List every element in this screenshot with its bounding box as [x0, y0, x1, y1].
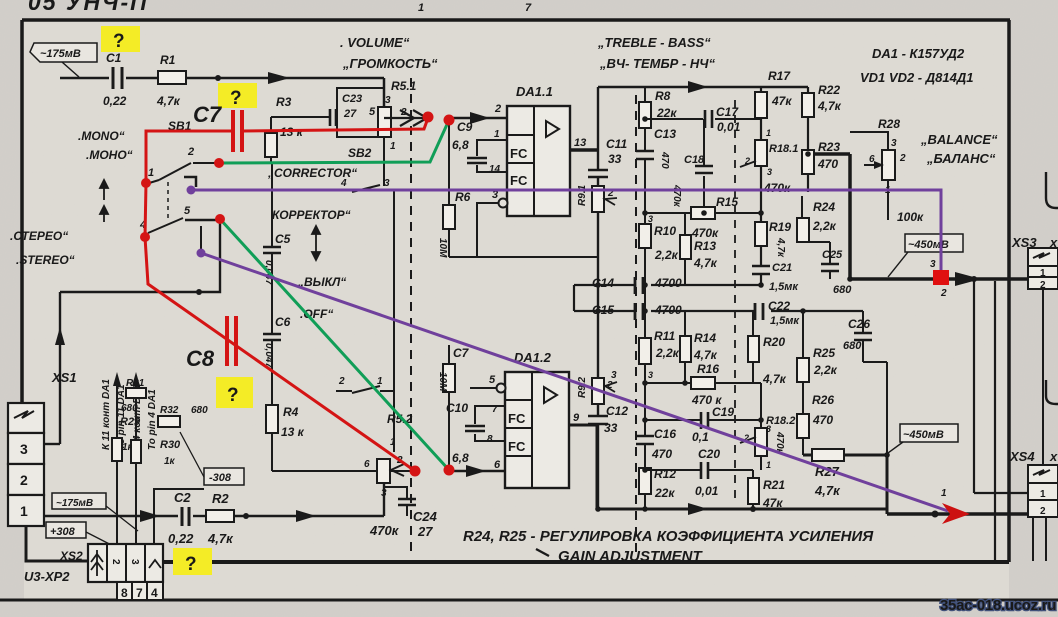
svg-text:1: 1	[1040, 489, 1046, 500]
wire: tone top rail y87	[598, 86, 808, 89]
svg-text:R23: R23	[818, 140, 840, 154]
node: tone net junction dots	[595, 116, 890, 512]
resistor R15	[691, 207, 715, 219]
bracket mark near SB1	[184, 177, 196, 187]
switch SB2 upper contact	[330, 185, 397, 192]
wire: right channel output rail y514	[887, 512, 1030, 516]
svg-text:R18.1: R18.1	[769, 143, 798, 155]
svg-text:22к: 22к	[654, 486, 675, 500]
svg-text:XS4: XS4	[1009, 449, 1035, 464]
capacitor C21	[752, 266, 770, 274]
svg-text:2: 2	[187, 146, 194, 158]
svg-text:R11: R11	[654, 329, 675, 343]
wire: R16 row y383	[645, 382, 691, 384]
resistor R23	[802, 150, 814, 174]
svg-text:2,2к: 2,2к	[813, 363, 838, 377]
svg-text:3: 3	[385, 95, 391, 106]
svg-text:3: 3	[129, 559, 140, 565]
wire: R22 column x808	[807, 87, 809, 192]
resistor R8	[639, 102, 651, 128]
svg-text:1: 1	[377, 376, 383, 387]
label box +308	[46, 522, 86, 538]
svg-text:R4: R4	[283, 405, 299, 419]
svg-text:R22: R22	[818, 83, 840, 97]
wire: XS4 tails to bus	[1032, 517, 1034, 561]
red arrowhead at XS4 feed	[942, 503, 970, 524]
svg-text:470к: 470к	[763, 181, 791, 195]
svg-text:R20: R20	[763, 335, 785, 349]
svg-text:C7: C7	[453, 346, 470, 360]
svg-text:C19: C19	[712, 405, 734, 419]
capacitor C15	[635, 303, 643, 320]
svg-text:КОРРЕКТОР“: КОРРЕКТОР“	[272, 208, 351, 222]
svg-text:0,1: 0,1	[692, 430, 709, 444]
label box ~175мВ	[30, 43, 97, 77]
wire: XS3 to XS4 link	[1042, 289, 1044, 465]
svg-text:8: 8	[487, 434, 493, 445]
svg-text:4: 4	[340, 178, 347, 189]
svg-text:1: 1	[941, 488, 947, 499]
svg-text:C6: C6	[275, 315, 291, 329]
wire: R5.1 bottom to SB2	[383, 137, 385, 186]
svg-text:3: 3	[766, 424, 771, 434]
svg-text:100к: 100к	[897, 210, 924, 224]
svg-text:„BALANCE“: „BALANCE“	[920, 132, 998, 147]
svg-text:?: ?	[185, 554, 197, 575]
svg-text:2: 2	[899, 153, 906, 164]
wire: C19 row y420	[645, 419, 700, 421]
wire: output to XS4 pin1	[974, 279, 1030, 493]
switch SB1	[146, 163, 220, 250]
svg-text:4,7к: 4,7к	[817, 99, 842, 113]
svg-text:3: 3	[611, 370, 617, 381]
svg-text:„ВЫКЛ“: „ВЫКЛ“	[297, 275, 346, 289]
highlight box ?2	[218, 83, 257, 108]
bottom bus wire	[163, 560, 1009, 564]
frame left border lower segment	[26, 526, 88, 561]
frame top border	[22, 18, 1010, 22]
svg-text:27: 27	[343, 108, 357, 120]
svg-text:R10: R10	[654, 224, 676, 238]
svg-text:VD1 VD2 - Д814Д1: VD1 VD2 - Д814Д1	[860, 70, 973, 85]
svg-text:„БАЛАНС“: „БАЛАНС“	[926, 151, 996, 166]
switch SB2 lower contact	[336, 386, 394, 393]
svg-text:C2: C2	[174, 490, 191, 505]
connector XS2 lower pins row	[117, 582, 163, 600]
capacitor C24	[384, 487, 407, 516]
svg-text:27: 27	[417, 524, 433, 539]
svg-text:R17: R17	[768, 69, 791, 83]
svg-text:3: 3	[384, 178, 390, 189]
resistor R20	[748, 336, 759, 362]
svg-text:~175мВ: ~175мВ	[56, 498, 93, 509]
svg-text:2: 2	[940, 288, 947, 299]
potentiometer R5.1	[378, 107, 391, 137]
svg-text:680: 680	[843, 340, 862, 352]
wire: C15 rail y311	[574, 310, 863, 312]
dashed separator line x636	[635, 95, 637, 556]
wire: tone vertical x761	[760, 87, 762, 285]
svg-text:C7: C7	[193, 102, 223, 127]
wire: DA1.1 pin2 input	[449, 117, 507, 120]
potentiometer R9.2	[592, 378, 604, 404]
svg-text:~450мВ: ~450мВ	[903, 429, 944, 441]
svg-text:470: 470	[659, 151, 670, 169]
purple wire: corrector bus to XS3	[191, 190, 941, 272]
svg-text:2: 2	[338, 376, 345, 387]
svg-text:1: 1	[1040, 268, 1046, 279]
resistor R17	[755, 92, 767, 118]
svg-text:R8: R8	[655, 89, 671, 103]
label box ~450мВ lower	[900, 424, 958, 442]
svg-text:.STEREO“: .STEREO“	[16, 253, 75, 267]
resistor R32	[158, 416, 180, 427]
dashed separator line x735	[734, 100, 736, 505]
svg-text:R24, R25 - РЕГУЛИРОВКА КОЭФФИ: R24, R25 - РЕГУЛИРОВКА КОЭФФИЦИЕНТА УСИЛ…	[463, 528, 874, 545]
svg-text:680: 680	[121, 403, 138, 414]
svg-text:R28: R28	[878, 117, 900, 131]
svg-text:R13: R13	[694, 239, 716, 253]
potentiometer R18.2	[755, 428, 767, 456]
svg-text:R5.1: R5.1	[391, 79, 417, 93]
capacitor C14	[635, 277, 643, 294]
svg-text:680: 680	[833, 284, 852, 296]
svg-text:?: ?	[227, 385, 239, 406]
wire: left channel output rail y279	[850, 277, 1030, 281]
capacitor C26	[863, 311, 887, 455]
svg-text:C16: C16	[654, 427, 676, 441]
op-amp DA1.1	[507, 84, 570, 216]
svg-text:To pin 4 DA1: To pin 4 DA1	[147, 389, 158, 450]
svg-text:1к: 1к	[164, 456, 176, 467]
svg-text:4,7к: 4,7к	[693, 348, 718, 362]
red wire: SB1 to R5.2 diagonal	[145, 237, 415, 471]
svg-text:„ГРОМКОСТЬ“: „ГРОМКОСТЬ“	[342, 56, 438, 71]
svg-text:R25: R25	[813, 346, 835, 360]
svg-text:22к: 22к	[656, 106, 677, 120]
resistor R1	[158, 71, 186, 84]
svg-text:4,7к: 4,7к	[762, 372, 787, 386]
svg-text:FC: FC	[510, 146, 528, 161]
corrector capacitor loop DA1.1	[477, 140, 507, 172]
wire: input rail y78	[60, 78, 384, 107]
wire: supply feed x136	[135, 384, 137, 545]
svg-text:4,7к: 4,7к	[156, 94, 181, 108]
svg-text:C23: C23	[342, 93, 362, 105]
connector bracket right lower	[1046, 380, 1058, 404]
node: rail junction	[750, 506, 756, 512]
svg-text:6: 6	[869, 154, 875, 165]
resistor R3	[270, 117, 272, 163]
svg-text:470к: 470к	[691, 226, 719, 240]
svg-text:C14: C14	[592, 276, 614, 290]
op-amp DA1.2	[505, 350, 569, 488]
svg-text:10М: 10М	[437, 238, 448, 258]
svg-text:R1: R1	[160, 53, 176, 67]
wire: R5.2 bottom to rail	[383, 483, 385, 516]
resistor R19	[755, 222, 767, 246]
wire: lower vertical x645	[644, 311, 646, 509]
capacitor C20	[701, 462, 708, 479]
svg-text:2: 2	[110, 559, 121, 565]
purple wire: long diagonal to XS4	[201, 253, 948, 511]
svg-text:0,01: 0,01	[717, 120, 741, 134]
svg-text:470: 470	[817, 157, 838, 171]
svg-text:4: 4	[151, 586, 158, 600]
svg-text:C12: C12	[606, 404, 628, 418]
wire: XS2 pin4 to -308 node	[154, 489, 204, 544]
svg-text:5: 5	[184, 205, 191, 217]
arrow on input rail	[268, 72, 290, 84]
capacitor C5	[263, 247, 281, 253]
svg-text:R24: R24	[813, 200, 835, 214]
wire: C17 row y119	[645, 118, 703, 120]
capacitor C6	[263, 334, 281, 340]
svg-text:?: ?	[230, 88, 242, 109]
capacitor C16	[636, 436, 654, 444]
capacitor C1	[113, 67, 122, 89]
wire: corrector chain vertical x272	[272, 163, 378, 471]
svg-text:9: 9	[573, 412, 580, 424]
svg-text:4,7к: 4,7к	[693, 256, 718, 270]
wire: R5.2 wiper to DA1.2	[390, 470, 416, 472]
mode arrows	[100, 180, 108, 222]
svg-text:470к: 470к	[369, 523, 400, 538]
svg-text:SB2: SB2	[348, 146, 372, 160]
svg-text:-308: -308	[209, 472, 232, 484]
svg-text:7: 7	[525, 2, 532, 14]
red wire: SB1 to volume wiper	[145, 118, 428, 237]
wire: tone vertical x645	[644, 87, 646, 311]
wire: DA1.1 pin3 loop	[449, 203, 598, 257]
resistor R16	[691, 377, 715, 389]
svg-text:C5: C5	[275, 232, 291, 246]
wire: SB2 link vertical	[393, 190, 395, 452]
svg-text:4700: 4700	[654, 303, 682, 317]
resistor R14	[680, 336, 691, 362]
wire: lower rail y509	[597, 508, 887, 511]
wire: R3 to volume node	[271, 116, 330, 118]
resistor R27	[812, 449, 844, 461]
capacitor C22	[755, 303, 763, 320]
svg-text:2: 2	[1040, 506, 1046, 517]
annotation capacitor C8 (red)	[227, 316, 236, 366]
svg-text:1: 1	[20, 503, 28, 519]
svg-text:0,01: 0,01	[695, 484, 719, 498]
potentiometer R18.1	[755, 140, 767, 166]
svg-text:C26: C26	[848, 317, 870, 331]
svg-text:3: 3	[648, 214, 653, 224]
potentiometer R9.1	[592, 186, 604, 212]
svg-text:К 11 конт DA1: К 11 конт DA1	[101, 379, 112, 450]
resistor R21	[748, 478, 759, 504]
svg-text:х: х	[1049, 449, 1058, 464]
svg-text:?: ?	[113, 31, 125, 52]
svg-text:33: 33	[604, 421, 618, 435]
label box ~450мВ upper	[905, 234, 963, 252]
highlight box ?4	[173, 548, 212, 575]
green wire: corrector to volume node	[219, 120, 449, 163]
svg-text:C13: C13	[654, 127, 676, 141]
svg-text:1: 1	[390, 437, 396, 448]
svg-text:FC: FC	[510, 173, 528, 188]
frame right border	[1007, 20, 1011, 562]
wire: R15 row y213	[645, 212, 691, 214]
frame left border	[20, 20, 24, 404]
svg-text:1: 1	[766, 128, 771, 138]
node: rail junction dot	[243, 513, 249, 519]
svg-text:1: 1	[418, 2, 424, 14]
svg-text:XS2: XS2	[59, 549, 83, 563]
capacitor C2	[182, 507, 189, 526]
svg-text:1: 1	[766, 460, 771, 470]
wire: lower input rail y516	[44, 515, 384, 517]
svg-text:470: 470	[651, 447, 672, 461]
svg-text:14: 14	[489, 164, 501, 175]
wire: XS3 pin2 to bottom bus	[994, 281, 996, 561]
svg-text:R2: R2	[212, 491, 229, 506]
purple node dots	[187, 186, 206, 258]
capacitor C13	[636, 151, 654, 159]
resistor R24	[797, 218, 809, 242]
capacitor C19	[701, 412, 708, 429]
svg-text:3: 3	[20, 441, 28, 457]
svg-text:1: 1	[148, 167, 154, 179]
red node dots	[140, 112, 455, 477]
svg-text:35ac-018.ucoz.ru: 35ac-018.ucoz.ru	[940, 597, 1056, 614]
wire: thick feed to output rail	[814, 154, 850, 279]
capacitor C25	[829, 242, 831, 279]
svg-text:~175мВ: ~175мВ	[40, 48, 81, 60]
svg-text:2,2к: 2,2к	[654, 248, 679, 262]
resistor R7 10M	[448, 345, 450, 471]
node: output rail junction	[971, 276, 977, 282]
resistor R4	[266, 405, 278, 433]
svg-text:R19: R19	[769, 220, 791, 234]
svg-text:. VOLUME“: . VOLUME“	[340, 35, 410, 50]
corrector arrows	[312, 226, 320, 260]
resistor R11	[639, 338, 651, 364]
svg-text:FC: FC	[508, 439, 526, 454]
svg-text:5: 5	[489, 374, 496, 386]
svg-text:R21: R21	[763, 478, 785, 492]
svg-text:R32: R32	[160, 405, 179, 416]
svg-text:0,22: 0,22	[168, 531, 194, 546]
svg-text:R6: R6	[455, 190, 471, 204]
svg-text:13: 13	[574, 137, 586, 149]
svg-text:.МОНО“: .МОНО“	[86, 148, 133, 162]
svg-text:C22: C22	[768, 299, 790, 313]
svg-text:680: 680	[191, 405, 208, 416]
svg-text:3: 3	[930, 259, 936, 270]
svg-text:1,5мк: 1,5мк	[769, 281, 799, 293]
red square marker at XS3 feed	[933, 270, 949, 285]
svg-text:C9: C9	[457, 120, 473, 134]
annotation capacitor C7 (red)	[233, 110, 242, 152]
svg-text:XS1: XS1	[51, 370, 77, 385]
label box ~175мВ lower	[52, 493, 106, 509]
capacitor C17	[705, 110, 712, 128]
wire: C14 rail y285	[574, 284, 761, 286]
svg-text:R31: R31	[126, 378, 145, 389]
dashed separator line x411	[410, 78, 412, 556]
svg-text:R30: R30	[160, 439, 181, 451]
svg-text:7: 7	[136, 586, 143, 600]
svg-text:3: 3	[648, 370, 653, 380]
svg-text:R9.1: R9.1	[577, 184, 588, 206]
node: input junction	[215, 75, 221, 81]
resistor R6 10M	[448, 118, 450, 257]
label box -308	[204, 468, 244, 485]
resistor R2	[206, 510, 234, 522]
wire: C20 row y470	[645, 469, 700, 471]
wire: rails left vertical	[573, 285, 575, 311]
svg-text:6: 6	[364, 459, 370, 470]
wiper arrows R5.1	[384, 110, 427, 126]
svg-text:33: 33	[608, 152, 622, 166]
svg-text:C1: C1	[106, 51, 122, 65]
svg-text:47к: 47к	[771, 94, 792, 108]
svg-text:2,2к: 2,2к	[655, 346, 680, 360]
svg-text:1: 1	[390, 141, 396, 152]
svg-text:6,8: 6,8	[452, 138, 469, 152]
capacitor C12	[588, 416, 608, 424]
svg-text:0,22: 0,22	[103, 94, 127, 108]
svg-text:C18: C18	[684, 154, 705, 166]
svg-text:4,7к: 4,7к	[814, 483, 841, 498]
svg-text:U3-ХР2: U3-ХР2	[24, 569, 70, 584]
wire: supply feed x117	[116, 384, 118, 545]
svg-text:13 к: 13 к	[281, 425, 305, 439]
wire: R27 row y455	[803, 455, 887, 514]
svg-text:5: 5	[369, 106, 376, 118]
svg-text:6,8: 6,8	[452, 451, 469, 465]
svg-text:FC: FC	[508, 411, 526, 426]
svg-text:„ВЧ- ТЕМБР - НЧ“: „ВЧ- ТЕМБР - НЧ“	[599, 56, 715, 71]
svg-text:„TREBLE - BASS“: „TREBLE - BASS“	[597, 35, 711, 50]
svg-text:.MONO“: .MONO“	[78, 129, 125, 143]
resistor R10	[639, 224, 651, 248]
svg-text:C11: C11	[606, 137, 627, 151]
svg-text:R15: R15	[716, 195, 738, 209]
svg-text:R3: R3	[276, 95, 292, 109]
svg-text:~450мВ: ~450мВ	[908, 239, 949, 251]
svg-text:4,7к: 4,7к	[775, 237, 786, 258]
wire: tone left vertical lower x598	[597, 311, 599, 509]
svg-text:+308: +308	[50, 526, 76, 538]
connector bracket right upper	[1046, 172, 1058, 208]
highlight box ?1	[101, 26, 140, 52]
resistor R22	[802, 93, 814, 117]
capacitor C23 box	[337, 88, 384, 137]
wire: XS1 pin3 feedback up	[44, 220, 220, 444]
node: stereo line junction	[196, 289, 202, 295]
svg-text:R16: R16	[697, 362, 719, 376]
svg-text:1: 1	[494, 129, 500, 140]
wire: corrector line y163	[219, 162, 272, 164]
green wire: stereo contact to DA1.2 input	[220, 219, 449, 470]
sheet bottom border line	[0, 599, 1058, 602]
svg-text:8: 8	[121, 586, 128, 600]
svg-text:1,5мк: 1,5мк	[770, 315, 800, 327]
svg-text:R26: R26	[812, 393, 834, 407]
svg-text:4,7к: 4,7к	[207, 531, 234, 546]
svg-text:C21: C21	[772, 262, 792, 274]
svg-text:GAIN ADJUSTMENT: GAIN ADJUSTMENT	[558, 548, 703, 565]
svg-text:2,2к: 2,2к	[812, 219, 837, 233]
svg-text:6: 6	[494, 459, 501, 471]
svg-text:3: 3	[767, 167, 772, 177]
